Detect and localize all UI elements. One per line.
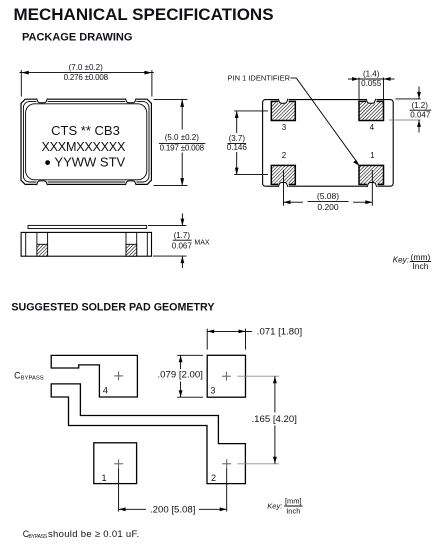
svg-text:(5.0 ±0.2): (5.0 ±0.2) [165,133,200,142]
notch top-left [36,98,47,103]
svg-text:0.055: 0.055 [361,79,382,88]
svg-text:0.197 ±0.008: 0.197 ±0.008 [160,143,205,152]
svg-text:2: 2 [282,151,287,160]
dim 7.0 arrows [21,71,29,75]
lid [28,225,146,228]
dim 5.0 line [181,99,183,185]
outline [263,100,394,187]
pad 1 [359,165,384,184]
dim 7.0 line [19,72,153,74]
svg-text:2: 2 [211,473,216,483]
svg-text:SUGGESTED SOLDER PAD GEOMETRY: SUGGESTED SOLDER PAD GEOMETRY [11,301,214,313]
notch top pad4 [366,98,376,103]
svg-text:CTS ** CB3: CTS ** CB3 [51,123,120,138]
svg-text:XXXMXXXXXX: XXXMXXXXXX [42,140,126,154]
marking bullet [45,160,50,165]
dim 5.0 text [157,130,208,153]
pad column right [125,232,127,256]
svg-text:MAX: MAX [194,240,210,247]
dim 1.2 [395,98,420,100]
notch bottom-left [36,181,47,186]
dim 5.0 arrows [180,99,184,107]
pad hatch left [37,244,48,256]
package outline [21,99,151,184]
svg-text:BYPASS: BYPASS [21,376,44,382]
dim .079 [177,354,203,356]
pin1 leader arrow [297,78,358,163]
center cross pad 2 [222,459,231,468]
svg-text:(7.0 ±0.2): (7.0 ±0.2) [69,63,104,72]
pad 3 [271,101,295,120]
dim 7.0 extension lines [19,70,153,97]
svg-text:PIN 1 IDENTIFIER: PIN 1 IDENTIFIER [228,73,291,82]
pad 2 [271,165,295,184]
svg-text:3: 3 [282,123,287,132]
svg-text:Inch: Inch [412,261,428,271]
svg-text:(1.4): (1.4) [363,69,380,78]
pad hatch right [126,244,137,256]
svg-text:Inch: Inch [286,506,300,515]
notch bottom-right [125,181,136,186]
package inner line 2 [26,104,147,180]
dim .165 [274,376,276,464]
svg-text:[mm]: [mm] [285,496,302,505]
svg-text:PACKAGE DRAWING: PACKAGE DRAWING [22,32,132,44]
center cross pad 1 [114,459,123,468]
notch top-right [125,98,136,103]
center cross pad 3 [222,372,231,381]
leader dash [291,77,297,79]
dim 5.0 extension lines [154,99,188,185]
lower stub + trace + pad2 [51,384,245,484]
dim .200 [118,468,120,511]
dim .071 [206,329,208,350]
svg-text:(1.2): (1.2) [411,101,428,110]
notch bottom pad2 [278,182,288,187]
svg-text:.200 [5.08]: .200 [5.08] [150,505,195,516]
svg-text:0.276 ±0.008: 0.276 ±0.008 [64,73,109,82]
pad3 [207,355,245,397]
pad 4 [359,101,384,120]
svg-text:MECHANICAL SPECIFICATIONS: MECHANICAL SPECIFICATIONS [14,5,274,24]
svg-text:(3.7): (3.7) [229,134,246,143]
body [21,232,151,256]
dim 3.7 [234,110,268,112]
svg-text:4: 4 [370,123,375,132]
svg-text:Key:: Key: [393,256,409,265]
svg-text:YYWW STV: YYWW STV [54,155,125,170]
svg-text:.079 [2.00]: .079 [2.00] [158,370,203,381]
castellation line left [25,232,27,256]
dim 1.7 arrow stubs [181,214,183,226]
center cross pad 4 [114,371,123,380]
svg-text:.071 [1.80]: .071 [1.80] [257,327,302,338]
svg-text:(1.7): (1.7) [174,231,191,240]
svg-text:3: 3 [210,386,215,396]
package inner line 1 [23,102,149,182]
svg-text:.165 [4.20]: .165 [4.20] [252,414,297,425]
notch bottom pad1 [367,182,377,187]
dim 1.7 extension lines [148,225,187,227]
svg-text:0.047: 0.047 [410,110,431,119]
leader from pad3 [237,375,279,377]
svg-text:(5.08): (5.08) [317,191,339,201]
pad4 + upper stub [51,355,137,397]
svg-text:0.146: 0.146 [227,143,248,152]
svg-text:0.067: 0.067 [172,241,193,250]
dim 5.08 [283,170,285,206]
svg-text:Key:: Key: [267,501,282,510]
svg-text:1: 1 [370,151,375,160]
svg-text:BYPASS: BYPASS [28,534,47,540]
leader from pad2 [237,463,279,465]
svg-text:1: 1 [102,473,107,483]
svg-text:should be ≥ 0.01 uF.: should be ≥ 0.01 uF. [48,529,140,540]
pad1 [94,443,137,484]
svg-text:4: 4 [103,385,108,395]
dim 1.4 [358,78,360,101]
notch top pad3 [278,98,288,103]
svg-text:0.200: 0.200 [317,202,339,212]
castellation line right [146,232,148,256]
pad column left [36,232,38,256]
